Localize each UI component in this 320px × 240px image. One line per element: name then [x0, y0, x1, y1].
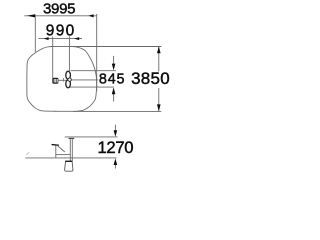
wire 1270 bottom arrow tail: [114, 164, 116, 168]
wire 1270 top reference: [65, 136, 118, 138]
stem line plan view: [58, 79, 66, 81]
arrow 3995 left: [27, 14, 35, 17]
arrow 845 down: [112, 64, 116, 71]
trap bucket below deck: [65, 161, 73, 172]
wire stem reference: [71, 79, 98, 81]
wall tick near deck: [26, 152, 29, 154]
dimension line 990: [39, 38, 83, 40]
svg-text:845: 845: [99, 71, 125, 87]
tub outline plan view: [27, 46, 97, 111]
wire extension line right 3995: [96, 14, 98, 91]
wire 845 top reference (handle top): [71, 70, 117, 72]
svg-text:990: 990: [46, 22, 75, 39]
bracket post side view: [55, 145, 57, 158]
riser top cap side view: [69, 137, 75, 139]
wire 1270 top arrow tail: [114, 125, 116, 131]
wire 3850 bottom reference: [73, 110, 161, 112]
arrow 845 up: [112, 87, 116, 94]
arrow 990 left: [44, 37, 49, 40]
handle cross plan view: [66, 71, 71, 88]
svg-text:1270: 1270: [98, 138, 134, 157]
wire 990 right vertical: [68, 36, 70, 71]
hand shower head side view: [52, 144, 59, 146]
dimension line 3850 upper segment: [158, 47, 160, 72]
wire 845 bottom arrow tail: [113, 94, 115, 102]
arrow 3850 down: [157, 104, 161, 111]
bracket arm side view: [56, 154, 71, 156]
spout head plan view: [52, 78, 58, 84]
wire 990 left vertical: [52, 36, 54, 77]
wire extension line left 3995: [34, 15, 36, 53]
arrow 3995 right: [88, 14, 93, 17]
dimension line 3995: [24, 15, 96, 17]
wire 845 bottom reference (handle bottom): [69, 86, 114, 88]
deck line side view: [25, 157, 116, 159]
handle hub circle plan view: [68, 78, 71, 81]
dimension line 3850 lower segment: [158, 88, 160, 111]
wire 3850 top reference: [72, 46, 161, 48]
arrow 1270 down: [114, 130, 118, 137]
faucet riser left line side view: [69, 139, 71, 161]
svg-text:3995: 3995: [43, 1, 76, 18]
arrow 1270 up: [114, 158, 118, 165]
stem tick plan view: [62, 78, 64, 81]
wire 845 top arrow tail: [113, 56, 115, 65]
svg-text:3850: 3850: [131, 69, 170, 88]
faucet riser right line side view: [71, 139, 73, 161]
hose diagonal side view: [58, 146, 65, 152]
arrow 990 right: [74, 37, 79, 40]
arrow 3850 up: [157, 46, 161, 53]
